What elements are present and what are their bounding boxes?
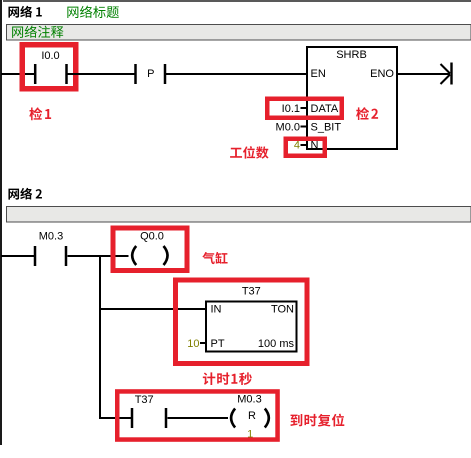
svg-text:PT: PT xyxy=(211,338,225,350)
red highlight box around reset rung xyxy=(117,391,277,439)
red highlight box around I0.0 xyxy=(22,45,76,89)
red annotation 工位数 xyxy=(230,146,268,159)
contact M0.3 xyxy=(35,231,66,267)
wire: T37 to reset coil xyxy=(168,417,229,419)
branch vertical wire xyxy=(99,255,101,419)
svg-text:M0.0: M0.0 xyxy=(276,122,300,134)
svg-text:IN: IN xyxy=(211,304,222,316)
network 1 title label xyxy=(8,6,41,18)
wire: branch to timer IN xyxy=(100,308,207,310)
red highlight box around 4 N xyxy=(286,139,325,156)
red annotation 到时复位 xyxy=(290,414,344,427)
network 1 green title text 网络标题 xyxy=(67,6,119,18)
top separator line xyxy=(3,0,471,2)
wire: P to SHRB EN xyxy=(166,73,306,75)
coil Q0.0 xyxy=(132,231,167,266)
operand I0.1 on DATA input xyxy=(282,103,307,115)
svg-text:ENO: ENO xyxy=(370,68,394,80)
red annotation 检2 xyxy=(356,107,378,120)
network 1 comment bar xyxy=(7,25,471,41)
red annotation 气缸 xyxy=(202,252,227,264)
wire: M0.3 to coil Q0.0 with branch node xyxy=(68,255,129,257)
network 2 title label xyxy=(8,188,41,200)
wire: rail to contact M0.3 xyxy=(1,255,35,257)
wire: I0.0 to P xyxy=(68,73,136,75)
red highlight box around I0.1 DATA xyxy=(267,99,342,118)
svg-text:SHRB: SHRB xyxy=(336,49,367,61)
svg-text:DATA: DATA xyxy=(311,103,339,115)
contact P (positive edge) xyxy=(136,64,166,84)
svg-text:EN: EN xyxy=(311,68,326,80)
svg-text:S_BIT: S_BIT xyxy=(311,122,342,134)
red highlight box around Q0.0 coil xyxy=(113,228,187,271)
wire: rail to contact I0.0 xyxy=(1,73,35,75)
svg-text:4: 4 xyxy=(294,140,300,152)
red annotation 计时1秒 xyxy=(203,372,252,385)
timer box T37 TON xyxy=(206,286,297,352)
contact I0.0 xyxy=(35,50,66,84)
red annotation 检1 xyxy=(29,107,51,120)
svg-text:M0.3: M0.3 xyxy=(39,231,63,243)
SHRB instruction box xyxy=(307,47,397,152)
wire: branch to contact T37 xyxy=(99,417,133,419)
svg-text:P: P xyxy=(147,68,154,80)
svg-text:100 ms: 100 ms xyxy=(258,338,295,350)
svg-text:M0.3: M0.3 xyxy=(237,394,261,406)
operand M0.0 on S_BIT input xyxy=(276,122,307,134)
rung continuation arrow xyxy=(441,63,452,85)
reset coil M0.3 (R) xyxy=(231,394,269,441)
network 2 comment bar xyxy=(7,207,471,223)
svg-text:T37: T37 xyxy=(242,286,261,298)
operand constant 10 on PT input xyxy=(187,338,206,350)
svg-text:R: R xyxy=(248,410,256,422)
svg-text:I0.1: I0.1 xyxy=(282,103,300,115)
left editor border / power rail xyxy=(0,0,2,445)
svg-text:Q0.0: Q0.0 xyxy=(140,231,164,243)
red highlight box around timer xyxy=(176,280,308,364)
svg-text:10: 10 xyxy=(187,338,199,350)
wire: ENO output xyxy=(398,73,450,75)
contact T37 xyxy=(132,394,166,428)
operand constant 4 on N input xyxy=(294,140,307,152)
svg-text:N: N xyxy=(311,140,319,152)
svg-text:T37: T37 xyxy=(135,394,154,406)
svg-text:I0.0: I0.0 xyxy=(41,50,59,62)
svg-text:TON: TON xyxy=(271,304,294,316)
